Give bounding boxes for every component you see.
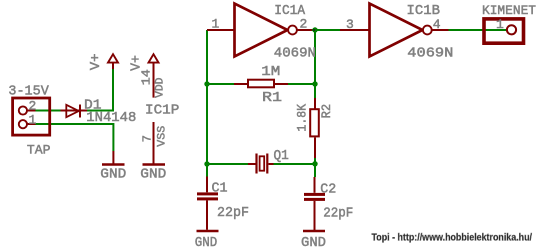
wire TAP pin1 to GND — [36, 124, 114, 151]
supply V+ symbol 2 arrow — [149, 54, 159, 62]
inverter IC1A bubble — [288, 26, 297, 35]
pin R1 left stub — [234, 83, 247, 85]
node IC1A output junction — [312, 27, 317, 32]
wire D1 cathode to V+ — [87, 68, 113, 111]
ground symbol C2 bar — [303, 230, 325, 233]
capacitor C1 plate bottom — [197, 197, 218, 200]
svg-text:V+: V+ — [89, 54, 104, 71]
svg-text:IC1A: IC1A — [274, 4, 306, 19]
svg-text:1N4148: 1N4148 — [86, 111, 136, 126]
svg-text:C1: C1 — [212, 182, 228, 197]
svg-text:VSS: VSS — [156, 125, 168, 146]
node R1 right junction — [312, 81, 317, 86]
svg-text:1M: 1M — [261, 65, 280, 80]
wire R1 left — [207, 83, 234, 85]
connector KIMENET pad circle — [507, 25, 516, 34]
svg-text:GND: GND — [140, 167, 166, 183]
pin D1 anode and cathode wire through body — [61, 110, 88, 112]
diode D1 triangle — [66, 105, 79, 117]
wire Q1 right — [274, 163, 316, 165]
svg-text:22pF: 22pF — [323, 206, 353, 221]
pin Q1 right stub — [269, 163, 274, 165]
svg-text:7: 7 — [141, 135, 155, 142]
svg-text:C2: C2 — [320, 182, 336, 197]
capacitor C2 plate bottom — [304, 198, 325, 201]
pin C2 top — [314, 177, 316, 193]
connector TAP pin 1 circle — [19, 120, 27, 128]
op-amp/inverter IC1A triangle — [235, 4, 288, 57]
wire IC1A output to IC1B input — [311, 29, 341, 31]
supply stem V+ 1 — [112, 63, 114, 70]
svg-text:3-15V: 3-15V — [8, 84, 49, 100]
node R1 left junction — [204, 81, 209, 86]
capacitor C2 plate top — [304, 193, 325, 196]
resistor R2 body — [310, 109, 319, 136]
inverter IC1B triangle — [370, 4, 423, 57]
svg-text:GND: GND — [195, 235, 218, 249]
wire Q1 left — [207, 163, 248, 165]
svg-text:V+: V+ — [129, 55, 144, 71]
svg-text:TAP: TAP — [27, 142, 51, 157]
diode D1 cathode bar — [79, 105, 81, 118]
pin TAP pin2 stub — [28, 110, 36, 112]
svg-text:R2: R2 — [319, 104, 334, 119]
ground symbol IC1P bar — [143, 163, 166, 166]
pin Q1 left stub — [248, 163, 256, 165]
svg-text:Q1: Q1 — [274, 149, 289, 164]
pin IC1P VDD (14) — [153, 63, 155, 98]
svg-text:4069N: 4069N — [407, 47, 453, 62]
svg-text:1: 1 — [29, 113, 37, 128]
svg-text:KIMENET: KIMENET — [482, 3, 536, 18]
svg-text:2: 2 — [29, 99, 37, 114]
pin IC1A input stub — [207, 29, 235, 31]
ground stem TAP net — [112, 151, 114, 164]
connector KIMENET box — [484, 19, 524, 43]
pin C2 bottom to GND — [314, 201, 316, 230]
pin TAP pin1 stub — [28, 123, 36, 125]
svg-text:1: 1 — [212, 17, 220, 32]
pin IC1B output stub — [432, 29, 449, 31]
svg-text:1: 1 — [496, 17, 504, 32]
svg-text:4: 4 — [433, 17, 441, 32]
node Q1 left junction — [204, 161, 209, 166]
wire right vertical net lower — [314, 158, 316, 177]
svg-text:3: 3 — [346, 17, 354, 32]
inverter IC1B bubble — [423, 26, 432, 35]
pin IC1P VSS (7) — [153, 122, 155, 164]
pin C1 top — [206, 177, 208, 193]
wire right vertical net upper — [314, 30, 316, 98]
capacitor C1 plate top — [197, 192, 218, 195]
resistor R1 body — [248, 80, 274, 88]
pin C1 bottom to GND — [206, 200, 208, 229]
svg-text:Topi - http://www.hobbielektro: Topi - http://www.hobbielektronika.hu/ — [372, 232, 533, 243]
crystal Q1 body rect — [260, 156, 265, 170]
pin R2 bottom stub — [314, 138, 316, 159]
svg-text:GND: GND — [301, 235, 326, 249]
svg-text:VDD: VDD — [154, 77, 166, 98]
supply V+ symbol 1 arrow — [108, 54, 118, 62]
pin IC1B input stub — [340, 29, 370, 31]
svg-text:1.8K: 1.8K — [294, 104, 309, 132]
svg-text:IC1P: IC1P — [145, 104, 179, 119]
connector TAP box — [13, 98, 50, 135]
wire R1 right — [288, 83, 315, 85]
svg-text:4069N: 4069N — [274, 47, 316, 62]
ground symbol C1 bar — [197, 230, 219, 233]
crystal Q1 left plate — [255, 154, 257, 174]
svg-text:R1: R1 — [262, 91, 282, 106]
svg-text:IC1B: IC1B — [407, 4, 441, 19]
wire left vertical net — [206, 30, 208, 177]
pin R2 top stub — [314, 98, 316, 109]
svg-text:GND: GND — [100, 167, 126, 183]
crystal Q1 right plate — [266, 154, 268, 174]
wire TAP pin2 to D1 anode — [36, 110, 61, 112]
pin R1 right stub — [275, 83, 288, 85]
ground symbol TAP net bar — [102, 163, 125, 166]
wire IC1B output to KIMENET — [448, 29, 506, 31]
connector TAP pin 2 circle — [19, 106, 27, 114]
pin IC1A output stub — [297, 29, 312, 31]
node Q1 right junction — [312, 161, 317, 166]
svg-text:22pF: 22pF — [217, 206, 249, 221]
svg-text:14: 14 — [140, 69, 154, 85]
